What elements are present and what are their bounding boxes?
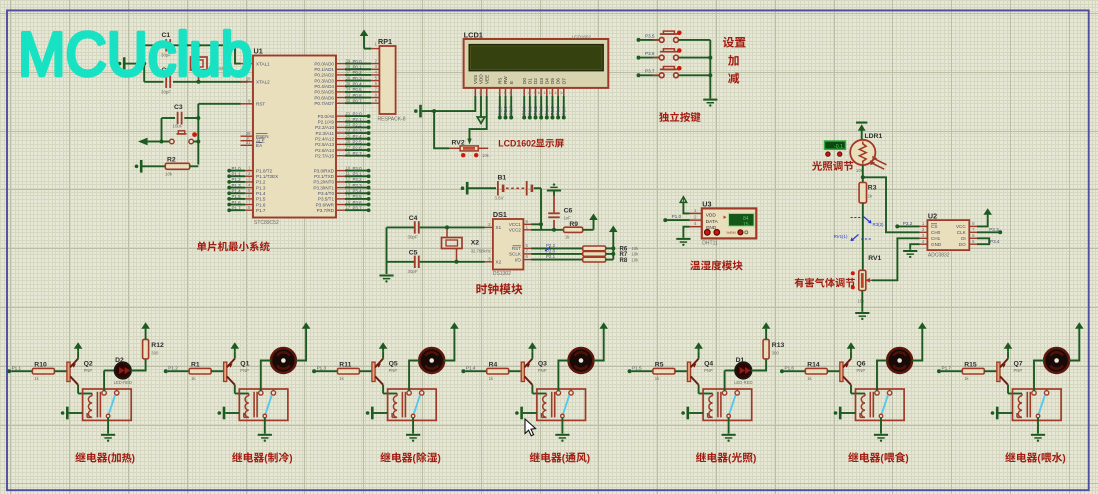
svg-text:P1.6: P1.6 bbox=[256, 202, 266, 207]
motor (继电器(除湿)) bbox=[419, 348, 444, 373]
svg-text:32: 32 bbox=[346, 98, 351, 103]
svg-text:P0.2/AD2: P0.2/AD2 bbox=[314, 73, 334, 78]
svg-text:U3: U3 bbox=[702, 200, 711, 209]
svg-text:10: 10 bbox=[537, 91, 541, 95]
svg-text:D1: D1 bbox=[527, 78, 532, 84]
svg-text:C3: C3 bbox=[174, 104, 183, 111]
wire relay common (继电器(制冷)) bbox=[264, 418, 266, 434]
svg-text:PNP: PNP bbox=[240, 368, 249, 373]
svg-text:P2.0/A8: P2.0/A8 bbox=[318, 114, 335, 119]
resistor R1 bbox=[189, 361, 224, 381]
svg-text:13: 13 bbox=[346, 182, 351, 187]
power arrow (reset, left) bbox=[138, 138, 159, 146]
svg-text:P2.4: P2.4 bbox=[353, 134, 363, 139]
wire motor-power (继电器(喂水)) bbox=[1069, 332, 1079, 361]
svg-text:P2.6: P2.6 bbox=[353, 145, 363, 150]
wire collector Q7 bbox=[1008, 385, 1022, 394]
svg-text:11: 11 bbox=[543, 91, 547, 95]
relay box (继电器(通风)) bbox=[537, 389, 586, 420]
svg-text:14: 14 bbox=[560, 91, 564, 95]
wire RV1 wiper to CH1 bbox=[872, 238, 920, 280]
ground (relay coil 继电器(喂食)) bbox=[834, 407, 856, 420]
crystal X2 bbox=[442, 225, 491, 263]
svg-text:P0.5/AD5: P0.5/AD5 bbox=[314, 90, 334, 95]
wire lcd VEE to RV2 bbox=[470, 96, 487, 139]
svg-text:Q7: Q7 bbox=[1014, 360, 1023, 367]
label light adjust bbox=[812, 161, 853, 171]
svg-text:P1.3: P1.3 bbox=[232, 183, 242, 188]
svg-text:10k: 10k bbox=[858, 298, 866, 303]
svg-text:6: 6 bbox=[248, 194, 251, 199]
resistor R15 bbox=[962, 361, 997, 381]
relay box (继电器(喂食)) bbox=[856, 389, 905, 420]
wire battery to VCC bbox=[539, 188, 543, 230]
ground (relay 继电器(光照)) bbox=[722, 434, 736, 442]
push button P3.7 bbox=[637, 66, 711, 78]
svg-text:30pF: 30pF bbox=[161, 90, 171, 95]
motor (继电器(喂食)) bbox=[887, 348, 912, 373]
wire crystal-left bus bbox=[130, 45, 146, 82]
svg-text:Q5: Q5 bbox=[389, 360, 398, 367]
svg-text:P0.1: P0.1 bbox=[353, 64, 363, 69]
svg-text:R1: R1 bbox=[191, 361, 200, 368]
ground (adc) bbox=[903, 250, 917, 258]
svg-text:PNP: PNP bbox=[1014, 368, 1023, 373]
mcu U1 P1 pins bbox=[227, 165, 278, 213]
svg-text:P3.1: P3.1 bbox=[353, 171, 363, 176]
power arrow (R9) bbox=[589, 214, 598, 230]
capacitor C5 bbox=[387, 249, 485, 273]
power arrow (dht11) bbox=[680, 197, 686, 203]
svg-text:P2.0: P2.0 bbox=[353, 111, 363, 116]
svg-text:(: ( bbox=[728, 454, 732, 465]
svg-text:VCC2: VCC2 bbox=[509, 228, 522, 233]
svg-text:P1.1: P1.1 bbox=[232, 171, 242, 176]
wire collector Q3 bbox=[532, 385, 546, 394]
power arrow (Q7) bbox=[1004, 342, 1013, 358]
svg-text:P1.1: P1.1 bbox=[12, 365, 22, 370]
svg-text:GND: GND bbox=[931, 242, 942, 247]
svg-text:P2.2: P2.2 bbox=[546, 243, 556, 248]
led D2 bbox=[104, 357, 132, 385]
svg-text:D2: D2 bbox=[533, 78, 538, 84]
svg-text:1nF: 1nF bbox=[564, 216, 572, 221]
svg-text:P2.7: P2.7 bbox=[509, 106, 514, 116]
svg-text:(: ( bbox=[880, 454, 884, 465]
battery B1 bbox=[495, 175, 542, 201]
relay box (继电器(光照)) bbox=[703, 389, 752, 420]
svg-text:P3.7: P3.7 bbox=[353, 205, 363, 210]
power arrow (R12) bbox=[141, 322, 150, 339]
label 继电器(喂水) bbox=[1005, 452, 1066, 464]
svg-text:P2.6/A14: P2.6/A14 bbox=[315, 148, 334, 153]
resistor R11 bbox=[337, 361, 372, 381]
label 继电器(加热) bbox=[75, 452, 135, 465]
clock DS1 pins bbox=[485, 219, 531, 265]
resistor R4 bbox=[487, 361, 522, 381]
svg-text:P1.2: P1.2 bbox=[232, 177, 242, 182]
lcd screen bbox=[469, 45, 603, 71]
ldr LDR1 bbox=[850, 133, 886, 173]
svg-text:MCUclub: MCUclub bbox=[18, 19, 253, 89]
svg-text:Q3: Q3 bbox=[538, 360, 547, 367]
ground (relay coil 继电器(光照)) bbox=[681, 407, 703, 420]
ground (battery left) bbox=[461, 182, 496, 195]
svg-text:R13: R13 bbox=[772, 342, 785, 349]
svg-text:P3.5/T1: P3.5/T1 bbox=[318, 197, 335, 202]
svg-text:P0.0/AD0: P0.0/AD0 bbox=[314, 61, 334, 66]
svg-text:P1.2: P1.2 bbox=[168, 365, 178, 370]
svg-text:P0.6/AD6: P0.6/AD6 bbox=[314, 95, 334, 100]
svg-text:RESPACK-8: RESPACK-8 bbox=[378, 117, 406, 123]
svg-text:10: 10 bbox=[346, 165, 351, 170]
resistor R14 bbox=[805, 361, 840, 381]
svg-text:RST: RST bbox=[512, 246, 521, 251]
power arrow (motor 继电器(除湿)) bbox=[450, 322, 459, 331]
svg-text:C6: C6 bbox=[564, 208, 573, 215]
wire RST bbox=[198, 103, 253, 105]
svg-text:P3.6/WR: P3.6/WR bbox=[316, 202, 335, 207]
svg-text:10uF: 10uF bbox=[173, 124, 183, 129]
node P1.4 bbox=[461, 365, 486, 373]
svg-text:LCD1602: LCD1602 bbox=[498, 139, 536, 149]
svg-text:P3.4/T0: P3.4/T0 bbox=[318, 191, 335, 196]
svg-text:P1.5: P1.5 bbox=[632, 365, 642, 370]
label 继电器(喂食) bbox=[848, 452, 909, 464]
svg-text:P2.3: P2.3 bbox=[353, 128, 363, 133]
svg-text:P1.2: P1.2 bbox=[256, 180, 266, 185]
svg-text:P0.0: P0.0 bbox=[522, 106, 527, 116]
svg-text:VCC1: VCC1 bbox=[509, 222, 522, 227]
svg-text:P3.6: P3.6 bbox=[645, 51, 655, 56]
svg-text:32.768kHz: 32.768kHz bbox=[471, 249, 491, 254]
svg-text:R11: R11 bbox=[339, 361, 351, 368]
dht11 display bbox=[724, 213, 755, 228]
svg-text:17: 17 bbox=[346, 205, 351, 210]
svg-text:14: 14 bbox=[346, 188, 351, 193]
wire RV2-left bbox=[434, 111, 449, 148]
svg-text:15: 15 bbox=[346, 194, 351, 199]
svg-text:31: 31 bbox=[246, 140, 251, 145]
wire R3-RV1 bbox=[862, 203, 864, 270]
svg-text:1: 1 bbox=[474, 91, 476, 95]
wire motor-contact (继电器(通风)) bbox=[558, 361, 568, 391]
svg-text:LED-RED: LED-RED bbox=[114, 380, 132, 385]
svg-text:9: 9 bbox=[534, 91, 536, 95]
svg-text:3: 3 bbox=[922, 233, 925, 238]
wire motor-contact (继电器(除湿)) bbox=[409, 361, 419, 391]
wire VCC2-R9 bbox=[531, 229, 564, 231]
svg-text:R14: R14 bbox=[807, 361, 820, 368]
pullup resistors R6 R7 R8 bbox=[531, 243, 639, 264]
svg-text:R8: R8 bbox=[620, 258, 628, 264]
wire relay common (继电器(光照)) bbox=[728, 418, 730, 434]
label 继电器(通风) bbox=[530, 452, 591, 464]
svg-text:P2.7/A15: P2.7/A15 bbox=[315, 153, 334, 158]
power bar (LDR) bbox=[856, 122, 867, 140]
svg-text:P0.3: P0.3 bbox=[353, 76, 363, 81]
power arrow (Q3) bbox=[528, 342, 537, 358]
svg-text:P1.0: P1.0 bbox=[232, 166, 242, 171]
svg-text:D3: D3 bbox=[539, 78, 544, 84]
svg-text:P3.5: P3.5 bbox=[645, 33, 655, 38]
power arrow (Q5) bbox=[379, 342, 388, 358]
motor (继电器(喂水)) bbox=[1044, 348, 1069, 373]
svg-text:VEE: VEE bbox=[484, 75, 489, 84]
node P3.2 bbox=[895, 221, 919, 228]
svg-text:%RH: %RH bbox=[726, 230, 735, 235]
svg-text:VDD: VDD bbox=[479, 74, 484, 84]
svg-text:RST: RST bbox=[256, 102, 265, 107]
svg-text:P1.6: P1.6 bbox=[785, 365, 795, 370]
svg-text:36: 36 bbox=[346, 75, 351, 80]
svg-text:P1.3: P1.3 bbox=[256, 185, 266, 190]
svg-text:DI: DI bbox=[961, 236, 966, 241]
power arrow (motor 继电器(制冷)) bbox=[302, 322, 311, 331]
svg-text:P3.3: P3.3 bbox=[989, 227, 999, 232]
svg-text:Q6: Q6 bbox=[857, 360, 866, 367]
svg-text:D6: D6 bbox=[556, 78, 561, 84]
svg-text:P3.6: P3.6 bbox=[353, 200, 363, 205]
svg-text:23: 23 bbox=[346, 122, 351, 127]
svg-text:DATA: DATA bbox=[706, 219, 719, 225]
svg-text:33: 33 bbox=[346, 92, 351, 97]
svg-text:35: 35 bbox=[346, 81, 351, 86]
crystal X1 bbox=[191, 43, 226, 84]
transistor Q5 bbox=[372, 359, 398, 385]
transistor Q4 bbox=[687, 359, 713, 385]
svg-text:P0.3: P0.3 bbox=[539, 106, 544, 116]
svg-text:34: 34 bbox=[346, 87, 351, 92]
svg-text:P0.4: P0.4 bbox=[353, 81, 363, 86]
dht11 inner texts bbox=[706, 212, 719, 231]
mcu U1 P3 pins bbox=[313, 165, 370, 213]
svg-text:RV1(1): RV1(1) bbox=[834, 234, 848, 239]
svg-text:P0.1/AD1: P0.1/AD1 bbox=[314, 67, 334, 72]
svg-text:P0.6: P0.6 bbox=[556, 106, 561, 116]
svg-text:R4: R4 bbox=[489, 361, 498, 368]
svg-text:CH1: CH1 bbox=[931, 236, 941, 241]
svg-text:P2.7: P2.7 bbox=[353, 151, 363, 156]
svg-text:(: ( bbox=[413, 454, 417, 465]
svg-text:25: 25 bbox=[346, 134, 351, 139]
adc U2 body bbox=[927, 211, 969, 258]
power arrow (Q6) bbox=[847, 342, 856, 358]
svg-text:ADC0832: ADC0832 bbox=[928, 252, 950, 258]
transistor Q1 bbox=[224, 359, 250, 385]
mcu U1 P2 pins bbox=[315, 111, 370, 159]
svg-text:R3: R3 bbox=[868, 185, 877, 192]
wire motor-power (继电器(通风)) bbox=[593, 332, 603, 361]
node P1.2 bbox=[164, 365, 189, 373]
wire motor-power (继电器(喂食)) bbox=[912, 332, 922, 361]
wire collector Q2 bbox=[78, 385, 92, 394]
svg-text:300: 300 bbox=[772, 351, 780, 356]
svg-text:): ) bbox=[1062, 454, 1065, 465]
svg-text:(: ( bbox=[108, 454, 112, 465]
svg-text:RW: RW bbox=[503, 76, 508, 84]
wire collector Q5 bbox=[383, 385, 397, 394]
svg-text:21: 21 bbox=[346, 111, 351, 116]
wire dht GND bbox=[683, 227, 689, 238]
respack RP1 bbox=[371, 37, 405, 123]
svg-text:P1.4: P1.4 bbox=[256, 191, 266, 196]
wire relay common (继电器(加热)) bbox=[107, 418, 109, 434]
wire C3-left bbox=[160, 118, 164, 144]
svg-text:P0.7/AD7: P0.7/AD7 bbox=[314, 101, 334, 106]
svg-text:DO: DO bbox=[959, 242, 966, 247]
svg-text:C4: C4 bbox=[409, 215, 418, 222]
transistor Q7 bbox=[997, 359, 1023, 385]
svg-text:): ) bbox=[905, 454, 908, 465]
transistor Q3 bbox=[521, 359, 547, 385]
svg-text:15: 15 bbox=[743, 222, 749, 228]
svg-text:10k: 10k bbox=[632, 246, 640, 251]
ground (relay coil 继电器(通风)) bbox=[515, 407, 537, 420]
resistor R9 bbox=[564, 221, 594, 239]
svg-text:P2.2: P2.2 bbox=[353, 123, 363, 128]
ground (lcd VSS) bbox=[414, 105, 426, 118]
svg-text:D0: D0 bbox=[522, 78, 527, 84]
wire led-contact (D2) bbox=[103, 371, 105, 391]
svg-text:XTAL2: XTAL2 bbox=[256, 80, 270, 85]
svg-text:B1: B1 bbox=[498, 175, 507, 182]
svg-text:VSS: VSS bbox=[473, 75, 478, 84]
svg-text:P2.4/A12: P2.4/A12 bbox=[315, 136, 334, 141]
push button P3.5 bbox=[637, 31, 711, 43]
svg-text:P2.5/A13: P2.5/A13 bbox=[315, 142, 334, 147]
svg-text:): ) bbox=[587, 454, 590, 465]
svg-text:R10: R10 bbox=[34, 361, 47, 368]
dht11 pins bbox=[690, 208, 702, 227]
node P1.0 bbox=[663, 214, 689, 222]
wire clock left bus bbox=[386, 227, 388, 274]
power arrow (Q4) bbox=[694, 342, 703, 358]
svg-text:DS1302: DS1302 bbox=[493, 271, 511, 277]
node P1.5 bbox=[628, 365, 653, 373]
wire relay common (继电器(喂水)) bbox=[1037, 418, 1039, 434]
svg-text:P2.2/A10: P2.2/A10 bbox=[315, 125, 334, 130]
svg-text:PNP: PNP bbox=[389, 368, 398, 373]
svg-text:RP1: RP1 bbox=[378, 37, 392, 46]
power arrow (motor 继电器(喂食)) bbox=[918, 322, 927, 331]
svg-text:U2: U2 bbox=[928, 211, 937, 220]
pot RV2 bbox=[449, 139, 490, 159]
svg-text:300: 300 bbox=[151, 351, 159, 356]
svg-text:): ) bbox=[289, 454, 292, 465]
wire collector Q1 bbox=[235, 385, 249, 394]
svg-text:P0.4: P0.4 bbox=[544, 106, 549, 116]
svg-text:CS: CS bbox=[931, 224, 937, 229]
ground (crystal caps) bbox=[118, 57, 130, 70]
svg-text:(: ( bbox=[264, 454, 268, 465]
adc U2 pins bbox=[920, 221, 977, 247]
svg-text:LED-RED: LED-RED bbox=[734, 380, 752, 385]
svg-text:10k: 10k bbox=[165, 172, 173, 177]
svg-text:P0.7: P0.7 bbox=[561, 106, 566, 116]
capacitor C4 bbox=[387, 215, 485, 240]
wire lcd VSS bbox=[426, 96, 475, 113]
svg-text:27: 27 bbox=[346, 145, 351, 150]
svg-text:RS: RS bbox=[497, 78, 502, 84]
wire relay common (继电器(通风)) bbox=[561, 418, 563, 434]
svg-text:P2.1/A9: P2.1/A9 bbox=[318, 119, 335, 124]
svg-text:P0.7: P0.7 bbox=[353, 98, 363, 103]
ground (relay 继电器(除湿)) bbox=[406, 434, 420, 442]
svg-text:10k: 10k bbox=[632, 252, 640, 257]
svg-text:I/O: I/O bbox=[515, 257, 522, 262]
svg-text:P3.2: P3.2 bbox=[903, 221, 913, 226]
ground (relay coil 继电器(喂水)) bbox=[991, 407, 1013, 420]
label 继电器(除湿) bbox=[380, 452, 441, 464]
power down arrow (lcd VDD) bbox=[477, 96, 485, 123]
svg-text:P1.0/T2: P1.0/T2 bbox=[256, 168, 273, 173]
svg-text:R2: R2 bbox=[167, 157, 176, 164]
svg-text:P3.3: P3.3 bbox=[353, 183, 363, 188]
svg-text:PNP: PNP bbox=[538, 368, 547, 373]
ground (RV1) bbox=[855, 312, 869, 320]
svg-text:P1.3: P1.3 bbox=[317, 365, 327, 370]
dht11 red leds bbox=[705, 230, 748, 236]
ground (R2) bbox=[135, 160, 146, 173]
svg-text:-0.1: -0.1 bbox=[834, 144, 843, 150]
svg-text:R9: R9 bbox=[569, 221, 578, 228]
svg-text:30pF: 30pF bbox=[408, 235, 418, 240]
ground (relay 继电器(通风)) bbox=[555, 434, 569, 442]
svg-text:P1.1/T2EX: P1.1/T2EX bbox=[256, 174, 278, 179]
svg-text:PNP: PNP bbox=[857, 368, 866, 373]
svg-text:26: 26 bbox=[346, 139, 351, 144]
svg-text:11: 11 bbox=[346, 171, 351, 176]
wire motor-contact (继电器(喂食)) bbox=[877, 361, 887, 391]
wire XTAL1 bbox=[235, 45, 253, 63]
svg-text:P3.0/RXD: P3.0/RXD bbox=[314, 168, 335, 173]
push button P3.6 bbox=[637, 48, 711, 60]
label shezhi bbox=[723, 37, 746, 48]
svg-text:P0.2: P0.2 bbox=[353, 70, 363, 75]
svg-text:P1.7: P1.7 bbox=[942, 365, 952, 370]
light display bbox=[825, 141, 846, 150]
power arrow (R13) bbox=[762, 322, 771, 339]
capacitor C1 bbox=[144, 32, 235, 58]
svg-text:E: E bbox=[509, 81, 514, 84]
wire adc VCC bbox=[977, 219, 988, 227]
svg-text:7: 7 bbox=[523, 91, 525, 95]
relay box (继电器(加热)) bbox=[83, 389, 132, 420]
resistor R10 bbox=[32, 361, 67, 381]
wire button bus bbox=[708, 40, 712, 99]
svg-text:8: 8 bbox=[248, 205, 251, 210]
svg-text:D2: D2 bbox=[115, 357, 124, 364]
svg-text:R15: R15 bbox=[964, 361, 977, 368]
wire led-res (D2) bbox=[131, 359, 146, 371]
svg-text:P3.7/RD: P3.7/RD bbox=[317, 208, 335, 213]
svg-text:DHT11: DHT11 bbox=[702, 240, 718, 246]
svg-text:P0.5: P0.5 bbox=[550, 106, 555, 116]
svg-text:P2.1: P2.1 bbox=[353, 117, 363, 122]
motor (继电器(通风)) bbox=[569, 348, 594, 373]
capacitor C6 bbox=[548, 192, 572, 232]
svg-text:D4: D4 bbox=[544, 78, 549, 84]
resistor R13 bbox=[763, 339, 784, 359]
svg-text:P3.7: P3.7 bbox=[645, 69, 655, 74]
svg-text:3.6V: 3.6V bbox=[495, 196, 504, 201]
clock DS1 body bbox=[493, 210, 524, 277]
svg-text:XTAL1: XTAL1 bbox=[256, 61, 270, 66]
svg-text:X2: X2 bbox=[471, 240, 480, 247]
ground (relay 继电器(喂水)) bbox=[1031, 434, 1045, 442]
svg-text:R3(2): R3(2) bbox=[873, 222, 885, 227]
